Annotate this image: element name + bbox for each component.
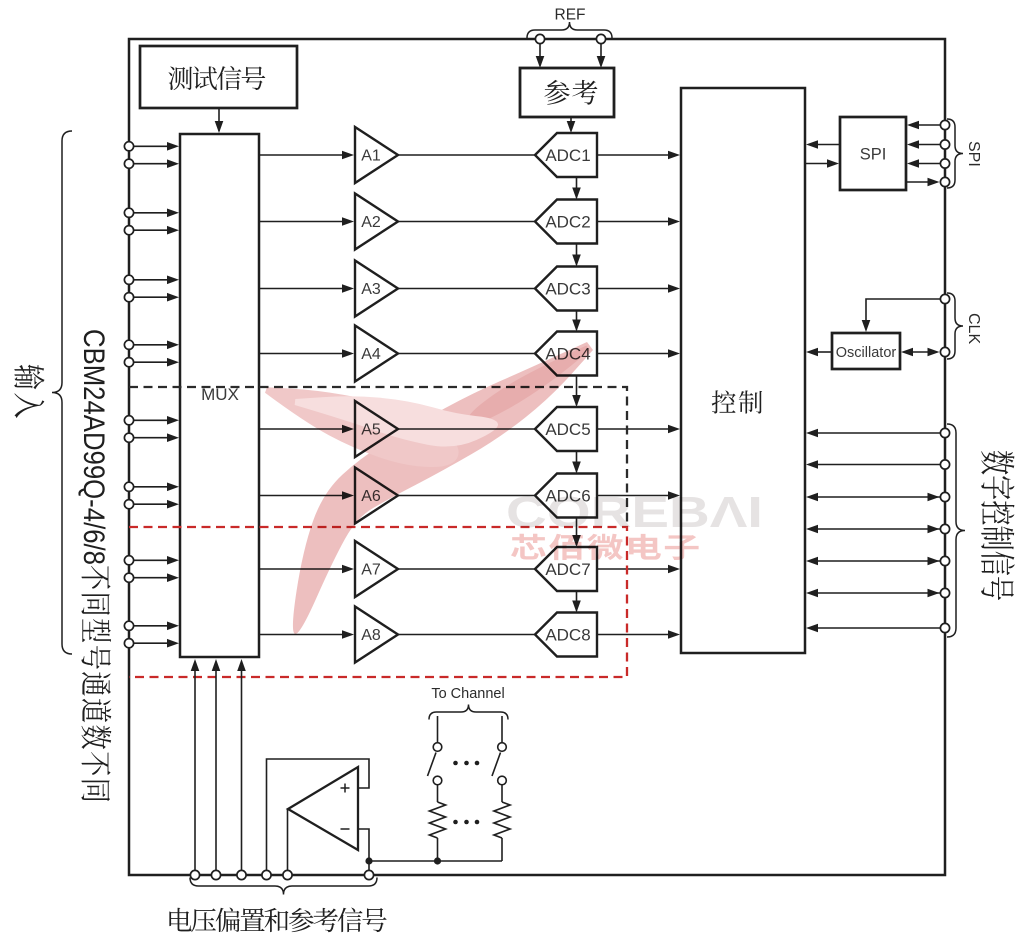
svg-text:A8: A8: [361, 627, 381, 644]
wire: MUX to amplifier A5: [259, 425, 354, 434]
label CLK (rotated): [965, 313, 982, 344]
svg-text:A4: A4: [361, 346, 381, 363]
svg-text:COREBΛI: COREBΛI: [506, 488, 763, 537]
wire: ADC8 to control block: [597, 630, 680, 639]
adc ADC7: [535, 547, 597, 591]
switch SW2: [492, 716, 506, 802]
node N2 junction: [434, 857, 441, 864]
pin B2: [211, 870, 220, 879]
pin DIG3: [940, 492, 949, 501]
wire: amplifier A7 to ADC7: [398, 568, 535, 570]
wire: pin DIG4 to control (bidirectional): [806, 525, 940, 534]
adc ADC8: [535, 613, 597, 657]
pin IN6+: [124, 482, 133, 491]
wire: ADC2 to control block: [597, 217, 680, 226]
dots ellipsis switches: [453, 761, 479, 766]
amplifier A7: [355, 541, 398, 597]
amplifier A4: [355, 326, 398, 382]
wire: input pin IN4- to MUX: [133, 358, 179, 367]
pin IN2+: [124, 208, 133, 217]
wire: pin B4 to op-amp non-inverting input (+): [267, 759, 370, 870]
oscillator block: [832, 333, 900, 369]
svg-text:ADC8: ADC8: [545, 626, 590, 645]
pin IN4+: [124, 340, 133, 349]
amplifier A2: [355, 194, 398, 250]
wire: MUX to amplifier A7: [259, 565, 354, 574]
reference box 参考: [520, 68, 614, 117]
wire: input pin IN3+ to MUX: [133, 276, 179, 285]
wire: ADC6 to ADC7 reference chain: [572, 518, 581, 548]
wire: input pin IN5+ to MUX: [133, 416, 179, 425]
wire: bias pin B3 to MUX: [237, 659, 246, 870]
dashed boundary 6-channel version (black): [129, 387, 627, 527]
brace REF group: [527, 22, 612, 38]
wire: input pin IN2- to MUX: [133, 226, 179, 235]
svg-text:ADC7: ADC7: [545, 560, 590, 579]
wire: input pin IN8+ to MUX: [133, 622, 179, 631]
watermark 芯佰微电子 text: [511, 534, 699, 560]
svg-text:A2: A2: [361, 214, 381, 231]
wire: amplifier A1 to ADC1: [398, 154, 535, 156]
label CBM24AD99Q-4/6/8 part number (rotated): [77, 329, 111, 565]
amplifier A1: [355, 127, 398, 183]
pin DIG6: [940, 588, 949, 597]
wire: ADC5 to ADC6 reference chain: [572, 451, 581, 474]
op-amp buffer: [288, 767, 358, 850]
svg-text:A7: A7: [361, 562, 381, 579]
brace SPI pin group: [947, 119, 963, 188]
pin REF1: [535, 34, 544, 43]
wire: input pin IN1- to MUX: [133, 159, 179, 168]
watermark corebai logo swoosh: [265, 342, 593, 634]
wire: input pin IN4+ to MUX: [133, 341, 179, 350]
switch SW1: [428, 716, 442, 802]
wire: ADC4 to control block: [597, 349, 680, 358]
brace To Channel group: [429, 705, 508, 720]
pin DIG4: [940, 524, 949, 533]
wire: input pin IN7- to MUX: [133, 573, 179, 582]
pin B1: [190, 870, 199, 879]
wire: amplifier A3 to ADC3: [398, 288, 535, 290]
wire: SPI block to control: [806, 140, 840, 149]
pin IN5+: [124, 416, 133, 425]
svg-text:SPI: SPI: [965, 141, 982, 167]
wire: bias rail node N1 to resistors: [369, 860, 502, 862]
pin IN8-: [124, 639, 133, 648]
wire: pin REF1 to reference box: [536, 44, 545, 68]
wire: input pin IN3- to MUX: [133, 293, 179, 302]
wire: ADC7 to ADC8 reference chain: [572, 591, 581, 613]
wire: MUX to amplifier A3: [259, 284, 354, 293]
adc ADC2: [535, 200, 597, 244]
pin B5: [283, 870, 292, 879]
pin IN3+: [124, 275, 133, 284]
svg-text:ADC2: ADC2: [545, 213, 590, 232]
pin IN3-: [124, 293, 133, 302]
amplifier A3: [355, 261, 398, 317]
wire: input pin IN2+ to MUX: [133, 209, 179, 218]
pin DIG1: [940, 428, 949, 437]
pin DIG5: [940, 556, 949, 565]
wire: pin DIG1 to control: [806, 429, 940, 438]
wire: ADC6 to control block: [597, 491, 680, 500]
wire: node N1 to pin B6: [368, 861, 370, 870]
wire: pin DIG5 to control (bidirectional): [806, 557, 940, 566]
pin SPI1: [940, 120, 949, 129]
wire: ADC3 to control block: [597, 284, 680, 293]
brace bias pin group: [190, 878, 377, 895]
amplifier A8: [355, 607, 398, 663]
spi block SPI: [840, 117, 906, 190]
wire: op-amp output to pin B5: [287, 809, 289, 870]
wire: pin SPI2 to SPI block: [907, 140, 940, 149]
pin IN1+: [124, 142, 133, 151]
label 控制: [712, 390, 762, 413]
svg-text:To Channel: To Channel: [431, 686, 504, 702]
wire: ADC2 to ADC3 reference chain: [572, 244, 581, 267]
control block 控制: [681, 88, 805, 653]
svg-text:SPI: SPI: [860, 146, 887, 164]
pin CLK1: [940, 294, 949, 303]
pin SPI3: [940, 159, 949, 168]
wire: amplifier A2 to ADC2: [398, 221, 535, 223]
wire: input pin IN5- to MUX: [133, 433, 179, 442]
amplifier A6: [355, 468, 398, 524]
wire: MUX to amplifier A6: [259, 491, 354, 500]
wire: ADC5 to control block: [597, 425, 680, 434]
pin IN8+: [124, 621, 133, 630]
wire: resistor R1 to bias rail: [437, 838, 439, 861]
wire: MUX to amplifier A1: [259, 151, 354, 160]
node N1 junction: [365, 857, 372, 864]
wire: SPI block to pin SPI4: [906, 178, 940, 187]
svg-text:A1: A1: [361, 148, 381, 165]
wire: bias pin B1 to MUX: [191, 659, 200, 870]
wire: pin DIG6 to control (bidirectional): [806, 589, 940, 598]
wire: control to SPI block: [805, 159, 839, 168]
wire: ADC4 to ADC5 reference chain: [572, 376, 581, 408]
wire: MUX to amplifier A8: [259, 630, 354, 639]
wire: input pin IN6- to MUX: [133, 500, 179, 509]
wire: pin DIG3 to control (bidirectional): [806, 493, 940, 502]
wire: amplifier A6 to ADC6: [398, 495, 535, 497]
amplifier A5: [355, 401, 398, 457]
dots ellipsis resistors: [453, 820, 479, 825]
label 不同型号通道数不同 (rotated): [81, 566, 111, 801]
pin B6: [364, 870, 373, 879]
svg-text:CBM24AD99Q-4/6/8: CBM24AD99Q-4/6/8: [77, 329, 111, 565]
wire: ADC7 to control block: [597, 565, 680, 574]
pin IN6-: [124, 500, 133, 509]
svg-text:ADC1: ADC1: [545, 146, 590, 165]
resistor R1: [430, 802, 446, 838]
wire: input pin IN1+ to MUX: [133, 142, 179, 151]
brace digital control pin group: [947, 424, 965, 637]
pin IN1-: [124, 159, 133, 168]
mux block MUX: [180, 134, 259, 657]
wire: input pin IN8- to MUX: [133, 639, 179, 648]
wire: input pin IN7+ to MUX: [133, 556, 179, 565]
dashed boundary 8-channel version (red): [129, 527, 627, 677]
pin SPI4: [940, 177, 949, 186]
pin B4: [262, 870, 271, 879]
wire: test signal box to MUX: [215, 108, 224, 133]
svg-text:CLK: CLK: [965, 313, 982, 344]
brace input pin group: [52, 131, 72, 654]
adc ADC1: [535, 133, 597, 177]
adc ADC3: [535, 267, 597, 311]
pin IN7-: [124, 573, 133, 582]
pin SPI2: [940, 140, 949, 149]
label SPI (rotated): [965, 141, 982, 167]
wire: pin DIG2 to control: [806, 460, 940, 469]
resistor R2: [494, 802, 510, 838]
wire: oscillator to pin CLK2 (bidirectional): [901, 348, 940, 357]
adc ADC5: [535, 407, 597, 451]
svg-text:A3: A3: [361, 281, 381, 298]
svg-text:ADC3: ADC3: [545, 280, 590, 299]
label 电压偏置和参考信号: [169, 908, 386, 933]
label 参考: [544, 80, 597, 105]
wire: resistor R2 to bias rail: [501, 838, 503, 861]
wire: MUX to amplifier A4: [259, 349, 354, 358]
pin IN2-: [124, 226, 133, 235]
test signal box 测试信号: [140, 46, 297, 108]
brace CLK pin group: [947, 293, 963, 359]
wire: pin DIG7 to control: [806, 624, 940, 633]
wire: MUX to amplifier A2: [259, 217, 354, 226]
wire: op-amp inverting input (-) to node N1: [358, 829, 369, 861]
pin IN7+: [124, 556, 133, 565]
wire: input pin IN6+ to MUX: [133, 483, 179, 492]
pin IN4-: [124, 358, 133, 367]
svg-text:REF: REF: [555, 7, 586, 24]
pin DIG2: [940, 460, 949, 469]
wire: amplifier A4 to ADC4: [398, 353, 535, 355]
wire: ADC3 to ADC4 reference chain: [572, 311, 581, 332]
wire: pin SPI3 to SPI block: [907, 159, 940, 168]
wire: pin CLK1 to oscillator: [862, 299, 941, 332]
wire: bias pin B2 to MUX: [212, 659, 221, 870]
pin CLK2: [940, 347, 949, 356]
adc ADC4: [535, 332, 597, 376]
chip outer boundary box: [129, 39, 945, 875]
wire: ADC1 to ADC2 reference chain: [572, 177, 581, 200]
wire: oscillator to control: [806, 348, 832, 357]
pin B3: [237, 870, 246, 879]
wire: pin REF2 to reference box: [597, 44, 606, 68]
pin REF2: [596, 34, 605, 43]
pin IN5-: [124, 433, 133, 442]
label 输入 (rotated): [14, 365, 44, 418]
wire: pin SPI1 to SPI block: [907, 121, 940, 130]
svg-text:ADC5: ADC5: [545, 420, 590, 439]
svg-text:Oscillator: Oscillator: [836, 345, 897, 361]
wire: reference box to ADC1: [567, 117, 576, 133]
label 测试信号: [168, 66, 265, 90]
adc ADC6: [535, 474, 597, 518]
pin DIG7: [940, 623, 949, 632]
label 数字控制信号 (rotated): [981, 451, 1015, 600]
wire: amplifier A8 to ADC8: [398, 634, 535, 636]
wire: amplifier A5 to ADC5: [398, 428, 535, 430]
wire: ADC1 to control block: [597, 151, 680, 160]
